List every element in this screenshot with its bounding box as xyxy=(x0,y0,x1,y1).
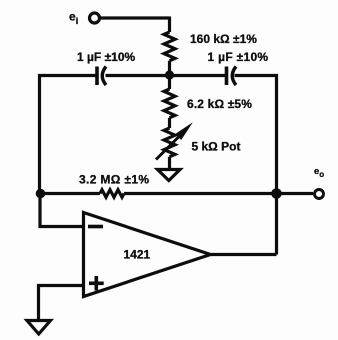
svg-text:1 µF ±10%: 1 µF ±10% xyxy=(208,50,269,64)
wire: node C to output terminal xyxy=(277,192,314,195)
wire: R 3.2M to node C xyxy=(124,192,277,195)
wire: R160k bottom to node A xyxy=(168,61,171,76)
wire: minus rail from node B down and into op-amp xyxy=(40,194,84,227)
node C junction dot xyxy=(271,188,282,199)
svg-text:1 µF ±10%: 1 µF ±10% xyxy=(77,50,136,64)
node A junction dot xyxy=(165,70,174,79)
svg-text:3.2 MΩ ±1%: 3.2 MΩ ±1% xyxy=(79,173,149,187)
wire: R6.2k to pot xyxy=(168,118,171,128)
input terminal ei (open circle) xyxy=(90,13,100,23)
wire: top corner down to R 160k xyxy=(168,17,171,33)
wire: node B to R 3.2M xyxy=(41,192,101,195)
svg-text:eo: eo xyxy=(314,166,324,179)
capacitor C1 (1uF left) xyxy=(97,67,106,86)
wire: ei terminal to top corner xyxy=(101,16,170,19)
ground (pot) xyxy=(158,170,181,181)
wire: C2 to right corner, down right rail to output corner xyxy=(235,76,277,255)
wire: pot to ground xyxy=(168,157,171,169)
output terminal eo (open circle) xyxy=(315,190,324,199)
svg-text:5 kΩ Pot: 5 kΩ Pot xyxy=(192,140,241,154)
op-amp minus input mark xyxy=(88,225,103,229)
svg-text:ei: ei xyxy=(69,10,78,27)
wire: C1 to left corner, down left rail to node B xyxy=(40,76,96,194)
potentiometer arrow xyxy=(156,122,193,159)
resistor R 6.2k (vertical zigzag) xyxy=(164,89,175,118)
wire: node A right to capacitor C2 xyxy=(170,74,227,77)
svg-text:6.2 kΩ ±5%: 6.2 kΩ ±5% xyxy=(187,97,252,111)
wire: plus input to left corner and down to ground xyxy=(39,286,84,321)
op-amp U1 1421 (triangle) xyxy=(84,213,211,297)
potentiometer 5k (zigzag) xyxy=(164,128,175,157)
ground (op-amp plus input) xyxy=(27,321,51,335)
wire: op-amp output to right rail corner xyxy=(211,253,277,256)
wire: node A left to capacitor C1 xyxy=(106,74,170,77)
resistor R 3.2M (horizontal zigzag) xyxy=(100,190,124,197)
resistor R 160k (vertical zigzag) xyxy=(164,32,175,61)
svg-text:1421: 1421 xyxy=(124,248,151,262)
svg-text:160 kΩ ±1%: 160 kΩ ±1% xyxy=(190,32,257,46)
capacitor C2 (1uF right) xyxy=(227,67,237,86)
node B junction dot xyxy=(36,189,46,199)
op-amp plus input mark xyxy=(89,276,104,291)
wire: node A down to R 6.2k xyxy=(168,76,171,90)
